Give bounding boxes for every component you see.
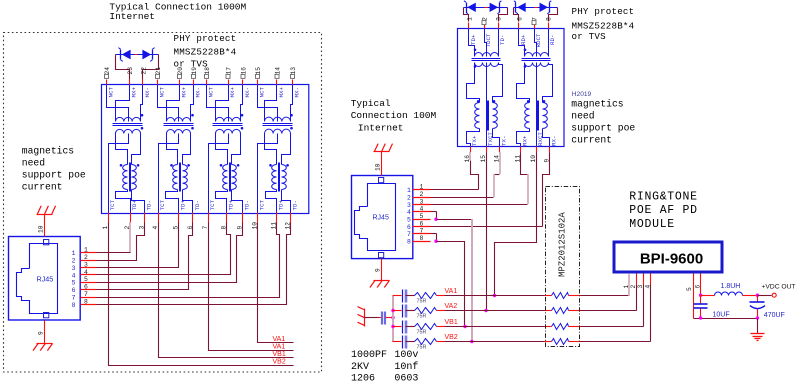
wire T1 pin12 to RJ45 row8 [97,223,291,305]
svg-text:VA1: VA1 [273,336,286,343]
svg-text:2: 2 [84,254,88,261]
T1 ch3 top pin 17 (MX+) [228,80,230,85]
svg-text:MX-: MX- [244,87,251,97]
J2 pin 10 wire to chassis [381,152,383,176]
T1 ch3 wire NCT to winding center [207,85,229,122]
wire T1 pin6 to RJ45 row6 [97,223,193,290]
svg-text:TCT: TCT [109,200,116,211]
svg-text:75R: 75R [417,330,427,336]
magnetics module T2 outline [458,29,565,147]
svg-text:TX+: TX+ [471,135,478,146]
row VA2 wire MPZ to BPI pin2 [569,310,581,312]
T1 ch2 wire MX+ to winding left [167,85,180,122]
wire D3 left leg [514,8,519,22]
svg-text:TD-: TD- [292,200,299,210]
zener diode D1a (points left) [122,50,131,60]
capacitor C2 10nF [402,305,404,318]
svg-text:2KV: 2KV [351,362,369,373]
J1 shield pad top (pin 10) [44,240,49,245]
svg-text:18: 18 [204,67,211,75]
U1 pin 5 wire to output return [693,274,695,319]
T2 ch1 wire pin1 to winding left [469,29,475,57]
svg-text:RXCT: RXCT [537,132,544,146]
svg-text:Typical: Typical [351,98,391,109]
svg-text:8: 8 [407,239,411,246]
chassis ground (line filter) [364,309,366,327]
T1 ch4 top pin 15 (NCT) [257,80,259,85]
T1 ch4 wire secondary right to choke [282,134,291,165]
svg-text:current: current [22,182,63,193]
svg-text:1: 1 [623,285,630,289]
T1 ch2 winding dot upper [191,114,194,117]
svg-text:75R: 75R [417,345,427,351]
junction dot bottom rail/C11 [756,316,759,319]
J1 pin 7 stub [81,297,97,299]
MPZ resistor R8 [552,339,569,345]
U1 pin 2 wire to VA2 [636,274,638,285]
T1 ch2 wire NCT to winding center [158,85,179,122]
T1 ch4 winding dot lower [290,127,293,130]
svg-text:NCT: NCT [259,87,266,98]
T1 ch4 bottom pin 11 [276,213,278,223]
svg-text:MX-: MX- [294,87,301,97]
wire T2 pin9 to J2 row6 [543,153,550,227]
T1 ch1 winding dot lower [141,127,144,130]
J2 jack inner outline [355,184,396,251]
T1 ch3 core [213,123,243,125]
svg-text:4: 4 [407,209,411,216]
svg-text:19: 19 [191,67,198,75]
T1 ch3 choke dots [220,164,223,167]
svg-text:TXCT: TXCT [487,132,494,146]
T1 ch4 core [263,123,293,125]
T2 ch2 center tap to RXCT [536,63,538,147]
T1 ch4 top pin 14 (MX+) [276,80,278,85]
svg-text:3: 3 [637,285,644,289]
wire D1 right leg to pin 22 [143,55,159,80]
wire R2 to net label [437,310,445,312]
chassis ground (J1 top) [37,214,53,216]
svg-text:RD-: RD- [549,35,556,45]
chassis ground (J2 bottom) [374,280,390,282]
T1 ch1 wire center tap to TCT rail [109,134,129,213]
svg-text:10: 10 [38,225,45,233]
T1 ch2 top pin 21 (NCT) [157,80,159,85]
svg-text:MX+: MX+ [181,87,188,98]
T1 ch1 wire NCT to winding center [107,85,129,122]
net tick D1 center [135,54,138,56]
svg-text:MPZ2012S102A: MPZ2012S102A [558,212,568,277]
svg-text:TX-: TX- [501,136,508,146]
J2 pin 1 stub [413,189,431,191]
svg-text:need: need [22,158,45,169]
T1 ch4 pin pads [256,74,260,78]
T1 ch1 wire choke right to TD- [132,190,145,213]
J2 pin 2 stub [413,197,431,199]
J1 pin 10 wire to chassis [44,215,46,237]
wire L1 to output node [743,295,758,297]
J1 shield pad bottom (pin 9) [44,313,49,318]
chassis ground (J1 bottom) [37,343,53,345]
wire T2 pin15 to net VA2 [486,153,488,311]
TVS diode pair D2 wire [464,7,508,9]
svg-text:2: 2 [407,195,411,202]
T1 ch2 primary winding [167,118,191,122]
wire R4 to net label [437,341,445,343]
svg-text:RX-: RX- [551,136,558,146]
svg-text:4: 4 [420,206,424,213]
junction dot bus/C9 [391,316,394,319]
svg-text:VB1: VB1 [445,319,458,326]
row VB1 wire to MPZ [445,326,545,328]
J2 pin 5 stub [413,219,431,221]
wire T1 pin10 to net VA1 [258,223,294,343]
wire D1 left leg to pin 23 [116,55,130,80]
row VA2 wire to MPZ [445,310,545,312]
svg-text:21: 21 [155,67,162,75]
T2 ch1 wire choke right to TX- [493,129,500,147]
T2 ch1 wire secondary right to choke [493,63,503,103]
T1 ch4 choke core [278,163,280,192]
zener diode D3b (points right) [540,3,549,12]
row VA1 wire MPZ to BPI pin1 [569,295,581,297]
svg-text:75R: 75R [417,299,427,305]
U1 pin 3 wire to VB1 [643,274,645,285]
svg-text:10UF: 10UF [713,312,730,319]
T2 ch1 top pin 2 with pad [484,23,486,29]
svg-text:4: 4 [644,285,651,289]
capacitor C9 1000PF [379,317,382,319]
T1 ch2 wire secondary right to choke [183,134,191,165]
T1 ch3 top pin 18 (NCT) [206,80,208,85]
T2 ch1 choke core [487,101,489,131]
svg-text:6: 6 [407,224,411,231]
svg-text:RING&TONE: RING&TONE [629,190,697,203]
T2 ch1 secondary winding (hanging) [475,63,499,67]
svg-text:need: need [571,111,594,122]
T2 ch1 wire choke left to TX+ [467,129,480,147]
RJ45 connector J2 outline [352,176,413,259]
T1 ch2 wire choke right to TD- [183,190,193,213]
svg-text:1000PF: 1000PF [351,350,387,361]
T2 ch2 bottom pin 10 [536,147,538,153]
T1 ch4 wire choke left to TD+ [266,190,277,213]
svg-text:4: 4 [84,269,88,276]
T1 ch4 choke dots [269,164,272,167]
svg-text:TD+: TD+ [470,34,477,45]
T2 ch2 core [522,58,551,60]
svg-text:6: 6 [695,285,702,289]
T1 ch4 wire secondary left to choke [265,134,277,165]
T1 ch4 choke right coil [282,165,287,190]
T1 ch4 top pin 13 (MX-) [292,80,294,85]
svg-text:17: 17 [226,67,233,75]
T2 ch1 choke left coil [475,103,480,129]
svg-text:5: 5 [407,217,411,224]
T1 ch1 bottom pin 2 [130,213,132,223]
TVS diode pair D3 wire [514,7,558,9]
wire C2 to R2 [406,310,415,312]
J1 pin 2 stub [81,260,97,262]
resistor R4 75R [415,339,437,345]
T1 ch1 wire MX- to winding right [141,85,143,122]
wire C1 to R1 [406,295,415,297]
wire T1 pin1 to net VB2 [109,223,294,366]
svg-text:TD+: TD+ [180,200,187,211]
T1 ch2 top pin 20 (MX+) [179,80,181,85]
T2 ch1 top pin 3 [498,23,500,29]
svg-text:VA1: VA1 [273,344,286,351]
wire T1 pin11 to RJ45 row7 [97,223,280,298]
output top rail [701,295,715,297]
row VB2 wire MPZ to BPI pin4 [569,341,581,343]
T1 ch3 winding dot upper [241,114,244,117]
svg-text:2: 2 [420,191,424,198]
T2 ch2 wire pin6 to winding left [519,29,525,57]
wire chassis to C9 [365,317,379,319]
T1 ch2 wire choke left to TD+ [166,190,179,213]
wire to +VDC OUT [758,295,772,297]
svg-text:BPI-9600: BPI-9600 [640,251,703,268]
svg-text:MX+: MX+ [278,87,285,98]
T1 ch1 choke core [129,163,131,192]
T1 ch1 top pin 23 (MX+) [129,80,131,85]
J2 shield pad bottom (pin 9) [379,253,384,258]
J2 pin 7 stub [413,233,431,235]
svg-text:75R: 75R [417,314,427,320]
T2 ch2 choke right coil [543,103,548,129]
svg-text:1: 1 [72,250,76,257]
T1 ch4 wire MX- to winding right [291,85,293,122]
inductor L1 1.8UH [715,292,743,296]
svg-text:1: 1 [84,246,88,253]
left section dotted border frame [4,33,322,373]
T2 ch1 choke dots [477,100,480,103]
svg-text:24: 24 [104,67,111,75]
T1 ch4 primary winding [265,117,291,121]
T2 ch2 winding dot lower [524,65,527,68]
wire T1 pin8 to RJ45 row4 [97,223,231,275]
zener diode D2a (points left) [467,3,476,12]
T2 ch2 bottom pin 11 [520,147,522,153]
svg-text:5: 5 [420,213,424,220]
wire T2 pin10 to net VA1 [495,153,537,296]
U1 pin 1 wire to VA1 [628,274,630,296]
wire T1 pin2 to RJ45 row1 [129,222,131,253]
svg-text:VA2: VA2 [445,303,458,310]
wire C3 to R3 [406,326,415,328]
T1 ch1 secondary winding [116,129,141,133]
T1 ch4 wire NCT to winding center [258,85,278,122]
J2 pin 9 wire to chassis [381,259,383,281]
junction dot bus VB1 [391,325,394,328]
T1 ch2 choke left coil [173,165,178,190]
T2 ch2 bottom pin 9 [549,147,551,153]
svg-text:15: 15 [255,67,262,75]
T1 ch2 bottom pin 5 [178,213,180,223]
wire T1 pin7 to net VA2 [209,223,294,351]
svg-text:TD+: TD+ [278,200,285,211]
T1 ch4 secondary winding [265,129,291,133]
T1 ch3 bottom pin 9 [242,213,244,223]
T2 ch1 choke right coil [492,103,497,129]
svg-text:9: 9 [375,268,382,272]
svg-text:TD-: TD- [499,35,506,45]
MPZ resistor R7 [552,324,569,330]
chassis ground (J2 top) [374,151,390,153]
resistor R2 75R [415,308,437,314]
svg-text:+VDC OUT: +VDC OUT [762,283,796,290]
svg-text:MODULE: MODULE [629,218,675,231]
svg-text:magnetics: magnetics [22,146,75,157]
J2 pin 3 stub [413,204,431,206]
T1 ch3 pin pads [205,74,209,78]
U1 pin 4 wire to VB2 [650,274,652,285]
wire T1 pin5 to RJ45 row3 [97,223,179,268]
T2 ch1 primary winding [475,53,499,57]
T1 ch1 wire MX+ to winding left [116,85,130,122]
wire J2 rows7+8 to net VB1 [437,242,465,327]
wire D2 right leg [499,8,508,22]
T2 ch2 choke core [537,101,539,131]
svg-text:or TVS: or TVS [572,31,607,42]
zener diode D3a (points left) [517,3,526,12]
T1 ch1 primary winding [116,117,141,121]
T1 ch2 choke core [179,163,181,192]
svg-text:RD+: RD+ [520,34,527,45]
svg-text:H2019: H2019 [572,91,592,98]
junction dot bus VA2 [391,309,394,312]
svg-text:TD-: TD- [194,200,201,210]
T2 ch1 winding dot lower [474,65,477,68]
svg-text:6: 6 [84,284,88,291]
svg-text:VB2: VB2 [273,359,286,366]
T1 ch3 wire MX- to winding right [241,85,243,122]
svg-text:MX+: MX+ [131,87,138,98]
J2 pin 4 stub [413,211,431,213]
T1 ch2 secondary winding [167,130,191,134]
svg-text:7: 7 [84,291,88,298]
svg-text:3: 3 [496,17,503,21]
wire J2 rows4+5 to net VB2 [437,219,473,221]
svg-text:VA1: VA1 [445,288,458,295]
T1 ch1 top pin 24 (NCT) [106,80,108,85]
T1 ch3 primary winding [216,117,241,121]
J1 pin 9 wire to chassis [44,321,46,344]
row VA1 wire to MPZ [445,295,545,297]
T1 ch3 bottom pin 8 [226,213,228,223]
T2 ch1 bottom pin 16 [470,147,472,153]
T1 ch4 winding dot upper [290,114,293,117]
svg-text:RJ45: RJ45 [373,215,389,222]
svg-text:23: 23 [127,67,134,75]
svg-text:7: 7 [72,295,76,302]
capacitor C10 10UF [700,296,702,305]
T1 ch1 bottom pin 1 [108,213,110,223]
T2 ch1 bottom pin 15 [486,147,488,153]
T1 ch3 wire choke right to TD- [232,190,243,213]
T2 ch1 wire secondary left to choke [467,63,480,103]
svg-text:8: 8 [420,235,424,242]
svg-text:VB2: VB2 [445,334,458,341]
capacitor C1 10nF [402,290,404,303]
zener diode D1b (points right) [142,50,151,60]
J2 pin 8 stub [413,241,431,243]
T1 ch3 choke left coil [223,165,228,190]
T1 ch2 top pin 19 (MX-) [193,80,195,85]
T2 ch2 primary winding [525,53,549,57]
svg-text:TD-: TD- [146,200,153,210]
T1 ch4 bottom pin 10 [257,213,259,223]
wire D3 right leg [549,8,558,22]
T1 ch1 pin pad 24 [105,74,109,78]
T1 ch3 secondary winding [216,129,241,133]
T1 ch2 wire MX- to winding right [191,85,194,122]
jumper J2 rows4-5 [431,211,437,213]
svg-text:magnetics: magnetics [571,98,624,109]
svg-text:2: 2 [72,257,76,264]
T2 ch2 choke left coil [525,103,530,129]
T1 ch3 wire choke left to TD+ [216,190,228,213]
row VB2 wire bus to capacitor [393,341,402,343]
wire T2 pin11 to J2 row3 [521,153,528,175]
T1 ch3 wire secondary left to choke [216,134,228,165]
svg-text:MMSZ5228B*4: MMSZ5228B*4 [174,46,237,57]
svg-text:current: current [571,135,612,146]
T1 ch3 top pin 16 (MX-) [242,80,244,85]
svg-text:14: 14 [275,67,282,75]
svg-text:RJ45: RJ45 [37,275,54,284]
T2 ch1 center tap to TXCT [486,63,488,147]
svg-text:470UF: 470UF [764,312,785,319]
wire D2 left leg [464,8,469,22]
T2 ch1 bottom pin 14 [499,147,501,153]
svg-text:1.8UH: 1.8UH [721,283,741,290]
svg-text:6: 6 [517,17,524,21]
T1 ch2 core [164,123,194,125]
svg-text:1: 1 [467,17,474,21]
T1 ch1 choke right coil [132,165,137,190]
svg-text:TD+: TD+ [228,200,235,211]
row VA2 wire bus to capacitor [393,310,402,312]
T1 ch3 bottom pin 7 [208,213,210,223]
T1 ch1 winding dot upper [141,114,144,117]
T1 ch3 choke core [229,163,231,192]
svg-text:100v: 100v [394,350,418,361]
svg-text:MX+: MX+ [229,87,236,98]
T1 ch2 choke dots [170,164,173,167]
T2 ch2 wire secondary left to choke [517,63,530,103]
T1 ch1 wire secondary right to choke [132,134,141,165]
svg-text:PHY protect: PHY protect [572,6,635,17]
svg-text:22: 22 [141,67,148,75]
wire T1 pin9 to RJ45 row5 [97,223,243,283]
svg-text:8: 8 [546,17,553,21]
svg-text:MX-: MX- [144,87,151,97]
wire T1 pin4 to net VB1 [159,223,294,358]
svg-text:7: 7 [407,231,411,238]
T1 ch1 core [113,123,143,125]
T1 ch3 choke right coil [232,165,237,190]
svg-text:5: 5 [686,287,693,291]
J1 pin 6 stub [81,289,97,291]
output bottom rail [694,318,758,320]
T1 ch4 wire MX+ to winding left [265,85,277,122]
MPZ2012S102A dashed box [546,187,580,347]
svg-text:3: 3 [420,198,424,205]
capacitor C3 10nF [402,321,404,334]
svg-text:6: 6 [72,287,76,294]
